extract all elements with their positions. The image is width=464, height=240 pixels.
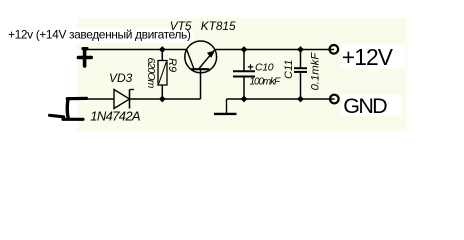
wire C10 leads <box>243 50 245 100</box>
ground symbol <box>214 99 237 114</box>
svg-text:1N4742A: 1N4742A <box>90 108 140 123</box>
label 620Om <box>145 58 157 89</box>
svg-text:+12v (+14V заведенный двигател: +12v (+14V заведенный двигатель) <box>8 28 191 42</box>
schematic background sheet <box>77 18 407 132</box>
svg-text:R9: R9 <box>166 58 178 72</box>
resistor R9 <box>158 61 167 86</box>
transistor VT5 <box>185 41 217 73</box>
transistor VT5 emitter arrow <box>207 50 215 58</box>
svg-text:VT5: VT5 <box>170 19 192 33</box>
label 1N4742A <box>90 108 140 123</box>
label GND <box>342 94 402 118</box>
capacitor C10 electrolytic <box>233 71 255 76</box>
wire top rail from input terminal to transistor collector <box>86 49 187 51</box>
wire C11 leads <box>300 50 302 100</box>
junction dot R9 bottom <box>159 96 166 103</box>
label R9 <box>166 58 178 72</box>
wire top rail from transistor emitter to +12V terminal <box>215 49 334 51</box>
label C10 <box>255 61 274 73</box>
svg-text:+12V: +12V <box>342 44 394 70</box>
wire R9 leads <box>161 50 163 100</box>
svg-text:KT815: KT815 <box>201 19 236 33</box>
label C10 plus sign <box>248 64 254 69</box>
junction dot C11 top <box>297 46 304 53</box>
node label +12v input text <box>8 28 193 43</box>
label VT5 <box>170 19 192 33</box>
wire ground rail to GND terminal <box>227 98 335 100</box>
wire transistor base lead <box>200 70 202 99</box>
terminal ground clip mark <box>50 98 87 119</box>
terminal pin +12V <box>330 45 339 54</box>
label C11 <box>283 60 295 79</box>
label 100mkF <box>250 77 282 88</box>
label +12V <box>342 44 406 70</box>
svg-text:0.1mkF: 0.1mkF <box>310 52 322 91</box>
svg-text:VD3: VD3 <box>109 71 133 85</box>
svg-text:100mkF: 100mkF <box>250 77 282 88</box>
junction dot C10 bottom <box>241 96 248 103</box>
label KT815 <box>201 19 236 33</box>
svg-text:620Om: 620Om <box>145 58 157 89</box>
label 0.1mkF <box>310 52 322 91</box>
zener diode VD3 <box>114 90 134 109</box>
svg-text:GND: GND <box>343 94 387 118</box>
terminal input plus mark <box>78 49 91 66</box>
label VD3 <box>109 71 133 85</box>
svg-text:C11: C11 <box>283 60 295 79</box>
junction dot R9 top <box>159 46 166 53</box>
terminal pin GND <box>330 95 339 104</box>
svg-text:C10: C10 <box>255 61 274 73</box>
capacitor C11 <box>294 68 307 72</box>
junction dot C11 bottom <box>297 96 304 103</box>
wire base net from ground terminal through diode to base <box>86 98 201 100</box>
junction dot C10 top <box>241 46 248 53</box>
